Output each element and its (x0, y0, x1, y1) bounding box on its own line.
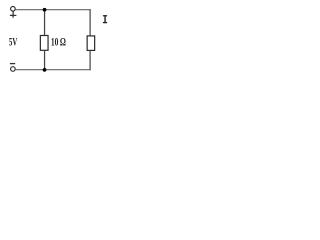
wire resistor branch lower (44, 50, 46, 70)
wire resistor branch upper (44, 9, 46, 36)
minus polarity sign (10, 63, 15, 65)
current label I (103, 15, 107, 23)
svg-text:10 Ω: 10 Ω (51, 34, 66, 48)
wire bottom (15, 69, 90, 71)
terminal - (bottom-left) (11, 67, 16, 72)
wire right branch upper (89, 9, 91, 36)
load element (box, right) (87, 36, 95, 51)
node junction bottom (43, 68, 47, 72)
terminal + (top-left) (11, 7, 16, 12)
svg-text:5V: 5V (9, 34, 18, 48)
resistor R 10ohm (box) (40, 36, 48, 51)
wire right branch lower (89, 50, 91, 70)
node junction top (43, 8, 47, 12)
plus polarity sign (10, 11, 17, 18)
wire top (15, 9, 90, 11)
